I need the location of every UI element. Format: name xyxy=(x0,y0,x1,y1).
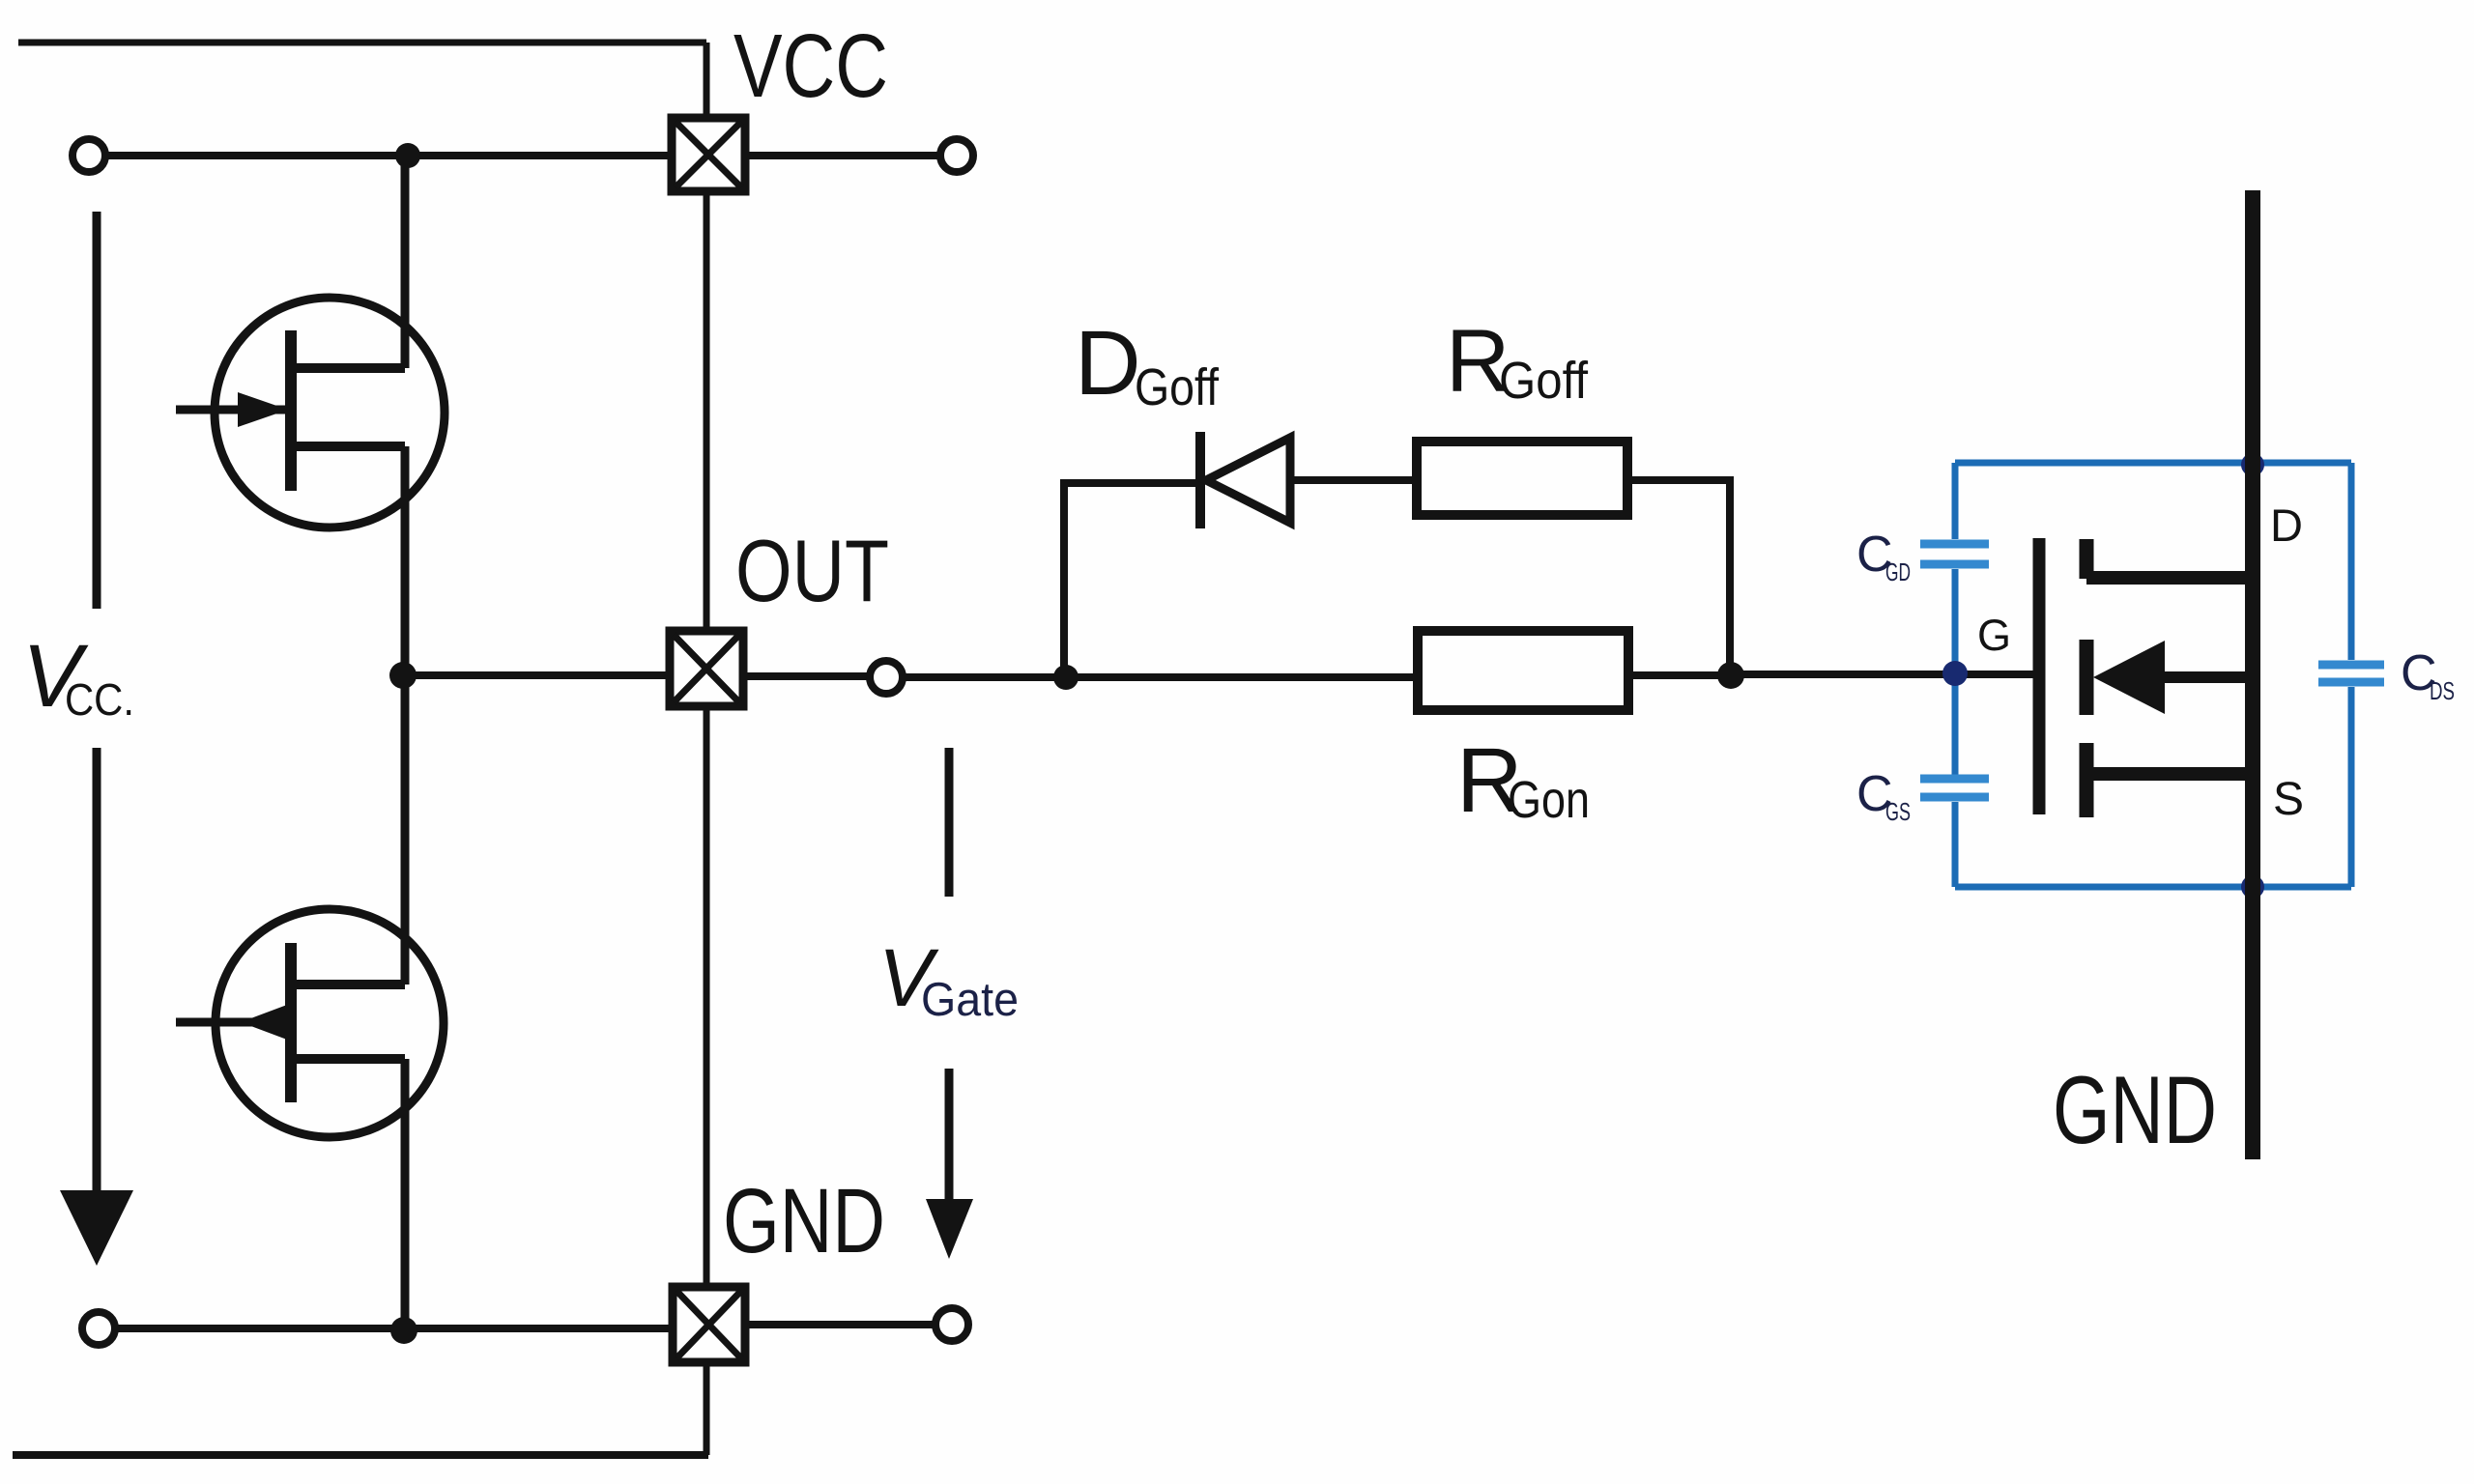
wire VCC row right xyxy=(746,152,939,159)
junction blue drain node xyxy=(2241,453,2264,476)
transistor Q1 (upper driver MOSFET) xyxy=(176,298,445,528)
wire OUT pin to terminal xyxy=(745,672,869,680)
node VCC output terminal (open circle) xyxy=(940,139,973,172)
resistor RGon xyxy=(1418,631,1628,710)
label RGoff xyxy=(1446,312,1589,411)
label CGS xyxy=(1856,766,1911,826)
svg-text:Goff: Goff xyxy=(1499,352,1589,410)
wire right edge of driver box xyxy=(704,43,710,1455)
svg-text:S: S xyxy=(2273,774,2304,825)
svg-text:Goff: Goff xyxy=(1135,358,1220,416)
wire VCC measurement line xyxy=(93,212,101,1190)
pin OUT (crossed square) xyxy=(670,631,743,706)
wire GND row left xyxy=(115,1325,671,1332)
wire Q1 source to OUT node xyxy=(401,446,410,675)
capacitor CGD xyxy=(1920,544,1989,564)
label DGoff xyxy=(1075,312,1220,416)
arrow VCC measurement xyxy=(60,1190,133,1266)
wire blue left edge middle xyxy=(1952,569,1959,775)
svg-text:DS: DS xyxy=(2430,676,2455,705)
svg-text:GS: GS xyxy=(1885,797,1911,826)
label CGD xyxy=(1856,527,1911,586)
wire blue right edge lower xyxy=(2348,687,2355,887)
junction blue gate node xyxy=(1942,661,1968,686)
pin GND (crossed square) xyxy=(673,1287,745,1362)
capacitor CGS xyxy=(1920,779,1989,797)
wire bottom rail of driver box xyxy=(13,1451,708,1459)
junction OUT internal xyxy=(389,662,417,689)
svg-text:GND: GND xyxy=(723,1170,885,1272)
wire diode to RGoff xyxy=(1290,476,1413,484)
wire blue left edge upper xyxy=(1952,463,1959,539)
label RGon xyxy=(1456,729,1590,832)
node VCC input terminal (open circle) xyxy=(72,139,105,172)
svg-text:CC.: CC. xyxy=(65,674,134,725)
svg-text:D: D xyxy=(2270,499,2303,551)
wire RGoff to rejoin corner xyxy=(1627,480,1730,675)
wire Q1 drain to VCC rail xyxy=(401,156,410,368)
diode DGoff xyxy=(1200,432,1290,528)
label VGate xyxy=(878,932,1019,1026)
wire blue bottom edge (CGS net) xyxy=(1955,884,2351,891)
wire OUT to RGon xyxy=(1073,673,1413,681)
junction blue source node xyxy=(2241,875,2264,899)
wire branch up to DGoff xyxy=(1064,483,1196,677)
svg-text:D: D xyxy=(1075,312,1141,414)
wire OUT terminal to gate branch xyxy=(903,673,1073,681)
wire blue right edge upper xyxy=(2348,463,2355,660)
wire GND row right xyxy=(747,1321,935,1328)
wire Q2 source to GND rail xyxy=(401,1059,410,1331)
svg-text:G: G xyxy=(1977,611,2011,660)
label CDS xyxy=(2401,645,2455,705)
wire OUT row internal xyxy=(403,671,668,679)
arrow VGate xyxy=(926,1199,973,1259)
wire Q2 drain to OUT node xyxy=(401,675,410,985)
wire drain-source rail xyxy=(2245,190,2260,1159)
junction GND rail xyxy=(390,1317,417,1344)
wire VGate measurement line xyxy=(945,748,954,1204)
svg-text:VCC: VCC xyxy=(734,15,888,116)
capacitor CDS xyxy=(2318,665,2384,682)
junction VCC rail xyxy=(395,143,420,168)
junction gate branch split xyxy=(1053,665,1079,690)
svg-text:Gate: Gate xyxy=(921,974,1019,1026)
svg-text:GND: GND xyxy=(2053,1056,2217,1163)
junction rejoin xyxy=(1717,662,1744,689)
pin VCC (crossed square) xyxy=(672,118,745,191)
label VCC measurement xyxy=(22,627,134,726)
node OUT terminal (open circle) xyxy=(870,661,903,694)
svg-text:OUT: OUT xyxy=(735,523,889,620)
node GND output terminal (open circle) xyxy=(935,1308,968,1341)
resistor RGoff xyxy=(1417,442,1627,515)
wire top rail of driver box xyxy=(18,40,706,46)
node GND input terminal (open circle) xyxy=(82,1312,115,1345)
wire RGon to rejoin xyxy=(1628,671,1731,679)
wire blue top edge (CGD net) xyxy=(1955,460,2351,467)
wire gate lead xyxy=(1731,671,2033,678)
transistor M1 (power MOSFET) xyxy=(2039,538,2253,817)
transistor Q2 (lower driver MOSFET) xyxy=(176,909,444,1137)
svg-text:GD: GD xyxy=(1885,557,1911,586)
svg-text:Gon: Gon xyxy=(1508,771,1590,829)
wire blue left edge lower xyxy=(1952,802,1959,887)
wire VCC row left xyxy=(105,152,671,159)
